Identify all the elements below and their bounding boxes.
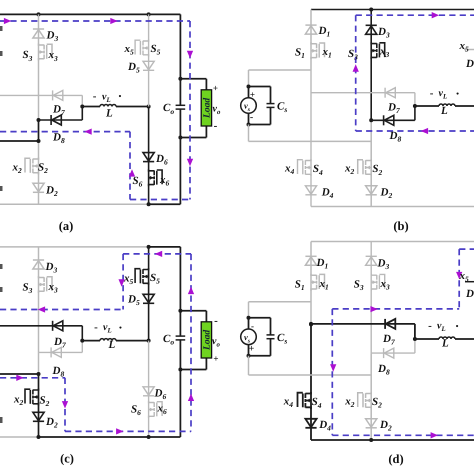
svg-text:D3: D3 (45, 261, 58, 275)
svg-text:x2: x2 (344, 163, 355, 177)
svg-text:D8: D8 (52, 365, 65, 379)
svg-text:+: + (249, 343, 255, 354)
svg-text:Cs: Cs (277, 332, 287, 346)
svg-text:-: - (94, 321, 98, 333)
svg-text:(b): (b) (393, 219, 408, 233)
svg-text:-: - (93, 91, 97, 103)
svg-text:-: - (250, 112, 253, 123)
svg-text:x3: x3 (380, 278, 391, 292)
svg-text:-: - (251, 321, 254, 331)
svg-text:+: + (213, 83, 218, 93)
svg-text:D1: D1 (318, 25, 331, 39)
svg-text:S4: S4 (313, 163, 323, 177)
svg-text:x1: x1 (319, 278, 329, 292)
svg-text:D7: D7 (52, 103, 65, 117)
svg-text:Co: Co (163, 333, 174, 347)
svg-text:D4: D4 (318, 419, 331, 433)
svg-text:Load: Load (203, 98, 213, 119)
svg-text:vo: vo (212, 336, 220, 349)
svg-text:S5: S5 (150, 272, 160, 286)
svg-text:D2: D2 (379, 419, 392, 433)
svg-text:(c): (c) (60, 452, 74, 466)
svg-text:•: • (456, 88, 459, 98)
svg-text:D3: D3 (377, 257, 390, 271)
svg-text:•: • (119, 322, 122, 332)
svg-text:Cs: Cs (277, 101, 287, 115)
svg-text:D: D (465, 288, 474, 300)
svg-text:Co: Co (163, 102, 174, 116)
svg-text:S1: S1 (295, 46, 305, 60)
svg-text:-: - (214, 120, 218, 132)
svg-text:D2: D2 (45, 184, 58, 198)
svg-text:x5: x5 (459, 40, 470, 54)
svg-text:(d): (d) (388, 452, 403, 466)
svg-text:x2: x2 (344, 396, 355, 410)
svg-text:x3: x3 (379, 45, 390, 59)
svg-text:D8: D8 (52, 131, 65, 145)
svg-text:D5: D5 (127, 61, 140, 75)
svg-text:S3: S3 (354, 278, 364, 292)
svg-text:D7: D7 (53, 336, 66, 350)
svg-text:D5: D5 (127, 294, 140, 308)
svg-text:S1: S1 (295, 278, 305, 292)
svg-text:x2: x2 (12, 161, 23, 175)
svg-text:D4: D4 (321, 187, 334, 201)
svg-text:S2: S2 (38, 161, 48, 175)
svg-text:vL: vL (103, 322, 112, 335)
svg-text:L: L (441, 338, 449, 350)
svg-text:D2: D2 (45, 416, 58, 430)
svg-text:D2: D2 (380, 187, 393, 201)
svg-text:x5: x5 (123, 272, 134, 286)
svg-text:S4: S4 (312, 396, 322, 410)
svg-text:D7: D7 (382, 333, 395, 347)
svg-text:S6: S6 (133, 175, 143, 189)
svg-text:D3: D3 (377, 26, 390, 40)
svg-text:x1: x1 (322, 46, 332, 60)
svg-text:•: • (118, 91, 121, 101)
svg-text:+: + (213, 354, 218, 364)
svg-text:+: + (250, 90, 255, 100)
svg-text:x2: x2 (13, 393, 24, 407)
svg-text:S5: S5 (151, 43, 161, 57)
svg-text:(a): (a) (59, 219, 74, 233)
svg-text:S3: S3 (23, 281, 33, 295)
svg-text:x4: x4 (284, 163, 295, 177)
svg-text:S3: S3 (23, 49, 33, 63)
svg-text:x5: x5 (124, 43, 135, 57)
svg-text:D8: D8 (377, 363, 390, 377)
svg-text:S6: S6 (131, 403, 141, 417)
svg-text:D1: D1 (316, 257, 329, 271)
svg-text:-: - (214, 315, 218, 327)
svg-text:x6: x6 (157, 402, 168, 416)
svg-text:•: • (456, 321, 459, 331)
svg-text:S2: S2 (40, 394, 50, 408)
svg-text:x3: x3 (48, 49, 59, 63)
svg-text:S2: S2 (372, 163, 382, 177)
svg-text:L: L (108, 339, 116, 351)
svg-text:x4: x4 (283, 396, 294, 410)
svg-text:D: D (465, 58, 474, 70)
svg-text:L: L (440, 105, 448, 117)
svg-text:vL: vL (437, 321, 446, 334)
svg-text:-: - (430, 88, 434, 100)
svg-text:S3: S3 (348, 48, 358, 62)
svg-text:S2: S2 (372, 396, 382, 410)
svg-text:D3: D3 (46, 30, 59, 44)
svg-text:D7: D7 (387, 101, 400, 115)
svg-text:x6: x6 (159, 174, 170, 188)
svg-text:vL: vL (439, 88, 448, 101)
svg-text:D6: D6 (155, 153, 168, 167)
svg-text:D6: D6 (154, 387, 167, 401)
svg-text:L: L (105, 108, 113, 120)
svg-text:x5: x5 (459, 270, 470, 284)
svg-text:vL: vL (102, 92, 111, 105)
svg-text:-: - (428, 320, 432, 332)
svg-text:x3: x3 (48, 281, 59, 295)
svg-text:vo: vo (213, 104, 221, 117)
